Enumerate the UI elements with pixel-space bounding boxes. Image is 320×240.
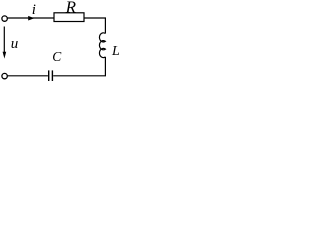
svg-text:C: C <box>52 49 62 64</box>
current arrow head i <box>28 16 34 21</box>
voltage arrow head u <box>3 52 7 59</box>
inductor L1 coil <box>99 33 105 58</box>
wire top-right with corner <box>84 18 105 34</box>
capacitor C1 right plate <box>51 70 53 81</box>
svg-text:R: R <box>65 0 77 16</box>
svg-text:L: L <box>111 44 119 59</box>
terminal top-left <box>2 16 7 21</box>
terminal bottom-left <box>2 73 7 78</box>
voltage arrow u shaft <box>3 27 5 54</box>
wire top (terminal to resistor) <box>8 17 55 19</box>
svg-text:i: i <box>32 2 36 18</box>
capacitor C1 left plate <box>48 70 50 81</box>
wire right-bottom with corner <box>53 57 105 76</box>
resistor R1 body <box>54 13 84 22</box>
wire bottom (capacitor to terminal) <box>8 75 48 77</box>
svg-text:u: u <box>11 36 18 52</box>
